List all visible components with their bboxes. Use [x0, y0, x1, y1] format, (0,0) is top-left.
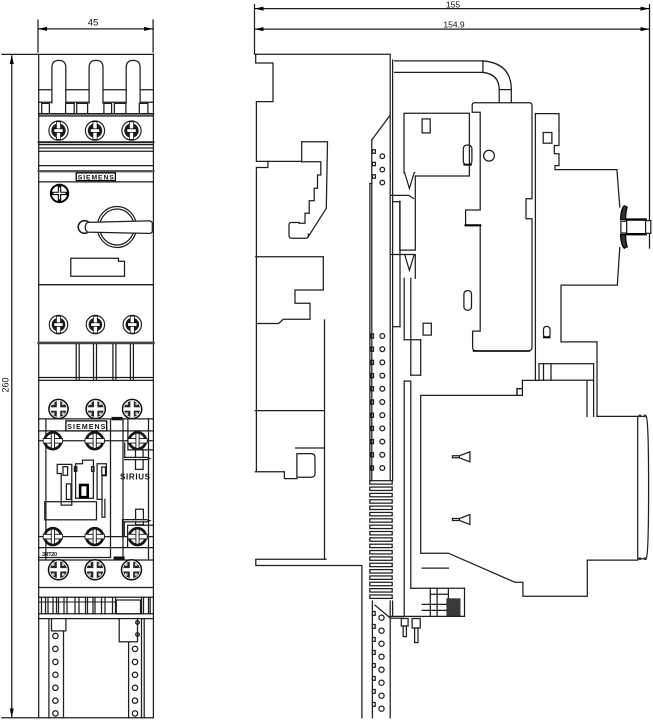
label window	[71, 258, 125, 276]
rotary handle ring	[97, 207, 136, 248]
contactor main screws bottom (cross)	[49, 560, 142, 580]
contactor front lower profile	[421, 380, 638, 596]
DIN groove lower	[255, 411, 324, 479]
contactor top screws (cross)	[49, 399, 142, 418]
phillips screw top-left	[51, 185, 68, 202]
connecting fingers	[39, 344, 154, 380]
contactor mechanism center	[45, 460, 107, 520]
SIEMENS label contactor	[66, 421, 107, 431]
svg-text:155: 155	[446, 0, 460, 10]
slot between blocks	[464, 291, 472, 311]
contactor top lines	[39, 419, 154, 431]
svg-text:3RT20: 3RT20	[42, 552, 57, 558]
svg-text:260: 260	[1, 377, 11, 392]
release indicator arrows	[452, 452, 470, 525]
coil terminal bump	[539, 364, 594, 381]
dark band under breaker	[39, 342, 154, 345]
busbar comb	[39, 597, 154, 614]
adapter foot	[256, 559, 362, 718]
rotary handle lever	[78, 221, 152, 234]
wiring channel black bar bottom	[114, 557, 125, 560]
busbar bottom band	[39, 614, 154, 619]
adapter right column	[324, 320, 326, 559]
contactor aux screws row (lower)	[39, 528, 154, 545]
svg-text:SIEMENS: SIEMENS	[78, 174, 114, 181]
screw row 1 (breaker line side)	[49, 121, 141, 140]
dimension 260 left	[1, 55, 14, 718]
SIEMENS label breaker	[76, 173, 115, 181]
terminal pin 1	[52, 60, 66, 103]
bottom clip assembly	[391, 568, 465, 618]
contactor lower lines	[39, 548, 154, 558]
dimension 45 top	[38, 18, 153, 53]
breaker rear block	[404, 113, 472, 176]
wiring channel black bar top	[112, 417, 123, 420]
front outline	[2, 54, 153, 717]
svg-text:45: 45	[88, 18, 99, 29]
svg-text:SIRIUS: SIRIUS	[120, 473, 151, 482]
adapter top edge	[256, 53, 390, 55]
terminal pins below clip	[401, 619, 420, 643]
small slot on breaker front bottom	[544, 327, 551, 338]
mounting strip verticals	[370, 54, 400, 718]
wiring channel verticals	[46, 419, 149, 560]
aux duct lower right	[123, 509, 154, 547]
svg-text:SIEMENS: SIEMENS	[67, 424, 105, 431]
contactor rear block A	[466, 103, 532, 351]
comb fins	[370, 481, 392, 599]
contactor aux screws row (upper)	[39, 433, 154, 450]
screw row 2 (breaker load side)	[49, 315, 141, 333]
right mounting rail	[119, 619, 144, 718]
left mounting rail	[49, 619, 66, 718]
terminal pin 3	[126, 60, 140, 103]
strip holes lower	[372, 605, 390, 711]
breaker face lines	[39, 142, 154, 182]
front cap plate	[638, 415, 649, 560]
DIN groove upper	[256, 257, 324, 324]
adapter left profile	[256, 54, 273, 472]
breaker bottom section line	[39, 284, 154, 286]
line under channel	[39, 559, 154, 561]
upper staircase	[268, 142, 328, 239]
connecting link pipe	[395, 61, 512, 103]
DIN clip column	[391, 173, 432, 617]
busbar comb top line	[39, 587, 154, 589]
terminal block strip	[39, 103, 154, 116]
pin shading line	[39, 89, 154, 91]
terminal pin 2	[89, 60, 103, 103]
aux duct upper right	[125, 419, 154, 470]
svg-text:154.9: 154.9	[443, 20, 465, 30]
breaker front block	[535, 114, 619, 417]
rotary knob shaft	[621, 206, 651, 248]
dimension 154.9	[255, 20, 650, 32]
strip holes middle	[371, 334, 385, 471]
dimension 155	[255, 0, 650, 248]
strip holes upper	[372, 150, 384, 185]
